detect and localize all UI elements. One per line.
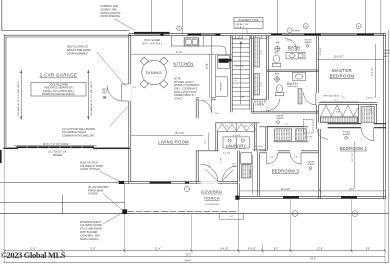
- grade line 1: [0, 182, 118, 184]
- svg-text:CONST.: CONST.: [174, 98, 183, 100]
- door gap bedroom2: [361, 123, 374, 129]
- deck line vertical 4: [365, 0, 367, 34]
- svg-text:OWNER PRIOR TO: OWNER PRIOR TO: [174, 95, 195, 97]
- svg-text:6'-4 1/2": 6'-4 1/2": [248, 249, 257, 251]
- master closet north wall: [318, 102, 377, 104]
- svg-text:2 CAR GARAGE: 2 CAR GARAGE: [40, 73, 78, 78]
- svg-text:9'-2": 9'-2": [274, 249, 279, 251]
- svg-text:INSTALL 1/2" GYPSUM WALL: INSTALL 1/2" GYPSUM WALL: [43, 90, 75, 93]
- dim 9-1 rotated hall: [251, 155, 253, 194]
- counter divider: [203, 36, 205, 46]
- svg-text:W.C.: W.C.: [274, 53, 279, 55]
- svg-text:BEDROOM 3: BEDROOM 3: [272, 168, 300, 173]
- svg-text:BOARD ON GARAGE CEILING: BOARD ON GARAGE CEILING: [42, 93, 75, 96]
- kitchen depth dim vertical: [208, 54, 210, 98]
- svg-text:WINDOW: WINDOW: [384, 53, 390, 55]
- circled tag porch line 1: [292, 211, 298, 217]
- svg-text:FINAL LAYOUT WITH: FINAL LAYOUT WITH: [174, 91, 197, 94]
- svg-text:5'-0": 5'-0": [261, 50, 263, 54]
- master door arc: [317, 128, 328, 139]
- wall poche bar 2: [215, 34, 220, 36]
- bedroom bottom dim line: [240, 190, 386, 192]
- front wall living room: [118, 181, 238, 183]
- garage code box: [31, 83, 86, 97]
- mud door arc: [199, 100, 212, 113]
- svg-text:4'-0": 4'-0": [225, 126, 229, 128]
- svg-text:2'-8": 2'-8": [132, 87, 136, 89]
- svg-text:11'-4": 11'-4": [155, 249, 161, 251]
- garage overhead door: [17, 146, 95, 148]
- leader handrail note: [114, 19, 135, 31]
- garage door swing arc: [107, 86, 122, 102]
- svg-text:ALARM: ALARM: [308, 163, 315, 166]
- hall door arc to bedroom hall: [267, 150, 278, 153]
- svg-text:12'-6 1/2": 12'-6 1/2": [371, 103, 373, 112]
- master closet dim line: [321, 101, 359, 103]
- window sill lines master mid: [322, 33, 358, 35]
- living window dark bar: [150, 182, 172, 184]
- svg-text:13R AT 7 3/8": 13R AT 7 3/8": [236, 23, 250, 26]
- bedroom wing front wall: [238, 195, 386, 197]
- upper bath vanity: [286, 52, 305, 59]
- svg-text:2'-8": 2'-8": [214, 113, 219, 115]
- svg-text:CODE REQUIRED: CODE REQUIRED: [49, 85, 69, 87]
- window sill lines master east: [375, 33, 384, 35]
- linen shelf hatch: [253, 100, 266, 103]
- stairs treads: [232, 39, 250, 109]
- basement stair note box: [234, 18, 263, 29]
- laundry closet rod zigzag: [217, 124, 257, 131]
- porch column left: [122, 209, 127, 214]
- attic access dashed: [304, 120, 314, 134]
- leader built-up stud: [100, 172, 119, 182]
- site line horizontal driveway top: [2, 30, 129, 32]
- svg-text:8'-4 1/2": 8'-4 1/2": [220, 249, 229, 251]
- hall closets top wall: [260, 126, 309, 128]
- svg-text:BATH: BATH: [287, 82, 298, 86]
- circled A window tag 1: [303, 24, 308, 29]
- master closet right shelves: [361, 107, 375, 123]
- svg-text:FIRE RATED SEPARATION: FIRE RATED SEPARATION: [44, 87, 73, 90]
- front door dark bar: [185, 182, 189, 184]
- deck line vertical 2: [182, 0, 184, 34]
- north exterior wall of house: [129, 33, 386, 35]
- svg-text:15'-8": 15'-8": [207, 63, 209, 69]
- svg-text:BEDROOM 2: BEDROOM 2: [340, 146, 368, 151]
- svg-text:NOTE:: NOTE:: [174, 79, 181, 81]
- svg-text:6'-0 1/2": 6'-0 1/2": [233, 135, 241, 137]
- smoke alarm symbol bath: [306, 44, 309, 47]
- svg-text:LAUNDRY: LAUNDRY: [226, 143, 247, 148]
- door gap master bath: [316, 93, 319, 105]
- svg-text:8'-1": 8'-1": [235, 77, 237, 81]
- dining table: [142, 60, 167, 85]
- svg-text:ALARM: ALARM: [305, 41, 312, 44]
- svg-text:33'-0": 33'-0": [310, 259, 316, 261]
- svg-text:DOOR ASSEMBLY!: DOOR ASSEMBLY!: [67, 53, 88, 56]
- hall window sill box: [251, 36, 268, 39]
- svg-text:COVERED: COVERED: [201, 189, 222, 194]
- porch column right: [235, 196, 239, 200]
- garage-house door leaf: [122, 84, 129, 101]
- bath west wall: [266, 36, 268, 112]
- bath door arc lower: [269, 99, 280, 110]
- master closet shelves: [321, 117, 358, 123]
- circled tag porch line 2: [352, 211, 358, 217]
- circled B slider tag: [177, 26, 182, 31]
- master closet south wall / bedroom2 north wall: [318, 123, 385, 125]
- svg-text:5000# LOAD EA.): 5000# LOAD EA.): [80, 238, 99, 241]
- svg-text:12'-6": 12'-6": [317, 249, 323, 251]
- dimension extension verticals bottom: [4, 150, 385, 263]
- svg-text:BEDROOM: BEDROOM: [330, 73, 355, 78]
- kitchen window dark bar: [188, 34, 202, 36]
- counter west leg: [215, 56, 217, 77]
- svg-text:EGRESS: EGRESS: [384, 50, 390, 52]
- garage north wall: [4, 34, 131, 36]
- stair west wall: [230, 36, 232, 112]
- garage south wall: [4, 147, 17, 149]
- hall closets bottom wall: [274, 141, 309, 143]
- svg-text:4'-1 1/2": 4'-1 1/2": [222, 152, 230, 154]
- hall closet small: [241, 153, 252, 164]
- svg-text:2'-10": 2'-10": [221, 157, 223, 163]
- circled A window tag 2: [356, 24, 361, 29]
- lower bath toilet: [276, 85, 282, 93]
- svg-text:2'-6 3/4": 2'-6 3/4": [305, 136, 313, 138]
- kitchen counter: [172, 46, 227, 56]
- svg-text:11'-0": 11'-0": [90, 249, 96, 251]
- svg-text:7'-2": 7'-2": [284, 124, 289, 126]
- wall poche bar 1: [160, 34, 163, 36]
- bedroom3 north wall: [260, 150, 319, 152]
- porch beam dashed: [128, 211, 238, 213]
- svg-text:16'-0" x 7'-0" O.H. DOOR: 16'-0" x 7'-0" O.H. DOOR: [43, 144, 69, 146]
- master window 1 dark bar: [304, 34, 321, 36]
- circled porch beam tag: [184, 186, 189, 191]
- lower bath fan: [275, 77, 280, 82]
- door gap master: [317, 123, 328, 129]
- roof overhang right: [387, 30, 389, 262]
- laundry closet north wall: [216, 122, 260, 124]
- bedroom2/3 divider wall: [317, 128, 319, 198]
- svg-text:19'-2 1/2": 19'-2 1/2": [175, 133, 185, 135]
- svg-text:B.P.: B.P.: [336, 112, 340, 114]
- closet divider: [358, 104, 360, 123]
- svg-text:FAN: FAN: [275, 73, 279, 76]
- stair east rail: [249, 36, 251, 109]
- svg-text:BASEMENT STAIR: BASEMENT STAIR: [239, 19, 259, 22]
- leader gyp note: [110, 107, 128, 126]
- vinyl slider dark bar: [134, 32, 170, 34]
- bath shelf strip: [298, 89, 302, 105]
- svg-text:(CONCRETE): (CONCRETE): [205, 204, 219, 206]
- hall east wall / bath west wall: [251, 36, 253, 112]
- mud room walls: [196, 97, 215, 99]
- porch slab edge full width: [0, 213, 388, 215]
- svg-text:2'-8": 2'-8": [294, 156, 298, 158]
- master bath door arc: [304, 93, 316, 105]
- bottom dim line 2: [4, 255, 385, 257]
- dining chairs: [140, 57, 168, 88]
- svg-text:LINEN: LINEN: [255, 103, 264, 107]
- scan artifact left edge: [0, 150, 2, 163]
- circled temp tag: [287, 28, 292, 33]
- master closet east wall: [376, 104, 378, 123]
- leader self-closing note: [97, 52, 126, 86]
- pantry shelf strip upper: [254, 38, 260, 68]
- site line left vertical: [1, 0, 3, 31]
- svg-text:DINING: DINING: [146, 70, 162, 75]
- linen closet walls: [252, 98, 267, 100]
- svg-text:AT EDGE: AT EDGE: [88, 193, 98, 196]
- deck line vertical 5: [380, 0, 382, 34]
- kitchen/mud wall: [211, 36, 213, 100]
- leader basement stair: [246, 29, 248, 34]
- bedroom2 dim vertical: [354, 142, 356, 188]
- laundry dim line vertical: [208, 133, 210, 150]
- porch column extension vertical: [124, 184, 126, 210]
- bottom dim line 3: [4, 261, 388, 263]
- svg-text:KITCHEN LAYOUT: KITCHEN LAYOUT: [174, 81, 194, 84]
- upper bath toilet: [273, 55, 280, 63]
- dim ticks line1: [3, 249, 386, 252]
- smoke alarm symbol hall: [277, 121, 280, 124]
- stair arrow: [240, 42, 242, 104]
- svg-text:(8'-0" x 6'-8" R.O.): (8'-0" x 6'-8" R.O.): [142, 42, 161, 45]
- window sill lines kitchen east: [201, 33, 215, 35]
- wall garage/dining shared: [128, 34, 130, 184]
- master window 2 dark bar: [357, 34, 374, 36]
- lower bath vanity: [293, 72, 306, 80]
- pantry cabinet: [216, 77, 228, 97]
- svg-text:ONLY - COORDINATE: ONLY - COORDINATE: [174, 88, 198, 91]
- attic access box: [342, 96, 346, 100]
- corner post dark: [119, 181, 124, 184]
- door gap front door: [201, 181, 218, 184]
- svg-text:12'-6 1/2": 12'-6 1/2": [281, 189, 291, 191]
- heat detector symbol: [103, 96, 106, 99]
- master dim line: [318, 59, 384, 61]
- svg-text:2'-6": 2'-6": [287, 40, 291, 42]
- svg-text:12'-4 1/2": 12'-4 1/2": [372, 67, 374, 76]
- svg-text:HEADER: HEADER: [53, 154, 63, 157]
- svg-text:2X4 WALL AT 16" O.C. MIN. SEC': 2X4 WALL AT 16" O.C. MIN. SEC'D: [17, 81, 20, 116]
- svg-text:44'-0": 44'-0": [185, 260, 191, 262]
- stair extension line vertical: [276, 0, 278, 34]
- svg-text:DET.: DET.: [103, 93, 108, 95]
- laundry washer: [223, 137, 236, 148]
- stair landing dark cap: [222, 59, 231, 62]
- smoke alarm symbol bedroom3: [309, 167, 312, 170]
- svg-text:5'-0": 5'-0": [261, 82, 263, 86]
- door gap garage-dining: [129, 84, 132, 101]
- east exterior wall: [383, 34, 385, 199]
- svg-text:DN: DN: [241, 96, 245, 98]
- door gap mud: [199, 98, 211, 101]
- svg-text:BATH: BATH: [288, 45, 300, 50]
- interior dim line living: [132, 134, 204, 136]
- svg-text:ALARM: ALARM: [277, 117, 284, 120]
- baths divider wall: [267, 69, 319, 71]
- svg-text:FRIDGE: FRIDGE: [221, 82, 223, 91]
- svg-text:SHOWN IS SCHEMATIC: SHOWN IS SCHEMATIC: [174, 84, 200, 87]
- window sill lines bath east: [283, 33, 305, 35]
- svg-text:22'-0": 22'-0": [186, 254, 192, 256]
- hall wall above bedroom3: [265, 127, 267, 151]
- laundry walls: [215, 123, 217, 151]
- svg-text:HDR.: HDR.: [384, 56, 389, 58]
- svg-text:FAN: FAN: [275, 41, 279, 44]
- bath window dark bar: [271, 34, 282, 35]
- grade line 2: [0, 202, 125, 204]
- kitchen sink: [184, 38, 199, 46]
- svg-text:13'-6 1/2": 13'-6 1/2": [334, 56, 344, 58]
- svg-text:LIVING ROOM: LIVING ROOM: [158, 139, 189, 144]
- svg-text:PORCH BEAM: PORCH BEAM: [88, 189, 104, 192]
- svg-text:7'-2": 7'-2": [205, 140, 207, 145]
- pantry shelf strip lower: [254, 74, 260, 96]
- svg-text:KITCHEN: KITCHEN: [173, 61, 193, 66]
- garage west wall: [3, 35, 5, 148]
- leader porch beam: [103, 194, 122, 210]
- bedroom3 closet shelves: [296, 129, 307, 141]
- svg-text:12'-1": 12'-1": [349, 189, 355, 191]
- svg-text:9'-6": 9'-6": [366, 249, 371, 251]
- range: [218, 56, 230, 69]
- porch steps: [220, 214, 244, 220]
- svg-text:2'-9 3/4": 2'-9 3/4": [255, 146, 263, 148]
- deck line vertical 3: [315, 0, 317, 34]
- svg-text:ATTIC ACCESS: ATTIC ACCESS: [323, 94, 339, 97]
- interior dim line kitchen: [132, 53, 233, 55]
- svg-text:13'-2 1/2": 13'-2 1/2": [235, 66, 244, 68]
- svg-text:HEAT: HEAT: [102, 89, 109, 92]
- svg-text:4'-6": 4'-6": [209, 163, 211, 168]
- bath door arc upper: [285, 39, 297, 51]
- svg-text:4'-0": 4'-0": [230, 216, 234, 218]
- bedroom3 west wall: [257, 151, 259, 197]
- svg-text:12'-7 1/2": 12'-7 1/2": [352, 152, 354, 161]
- svg-text:PORCH: PORCH: [204, 196, 219, 201]
- deck line vertical 1: [151, 0, 153, 34]
- living/hall wall: [195, 151, 197, 184]
- svg-text:MASTER: MASTER: [332, 68, 352, 73]
- svg-text:2'-8": 2'-8": [270, 156, 274, 158]
- svg-text:B.P.: B.P.: [232, 166, 236, 168]
- hall closet shelves: [275, 129, 292, 141]
- hall door arc second: [223, 166, 238, 181]
- porch east wall / wing west wall: [237, 184, 239, 199]
- svg-text:9'-7": 9'-7": [334, 100, 339, 102]
- svg-text:2X4 WALL AT 16" O.C. MIN. SEC': 2X4 WALL AT 16" O.C. MIN. SEC'D: [90, 81, 93, 116]
- svg-text:TEMP.: TEMP.: [293, 30, 300, 32]
- upper bath fixtures: [275, 46, 280, 51]
- laundry dryer: [236, 137, 249, 148]
- bedroom2 door arc: [361, 128, 373, 140]
- svg-text:12T AT 9": 12T AT 9": [236, 26, 246, 29]
- bedroom3 window dark bar: [283, 197, 299, 199]
- hall dim line 7-2: [268, 125, 304, 127]
- master closet rod zigzag: [321, 105, 358, 116]
- leader exterior porch: [103, 213, 123, 225]
- bedroom3 door arc: [290, 150, 301, 153]
- svg-text:COMMON WITH DWELLING: COMMON WITH DWELLING: [62, 135, 95, 138]
- smoke alarm symbol bedroom2: [345, 136, 348, 139]
- svg-text:B.P.: B.P.: [244, 126, 248, 128]
- master west wall: [315, 36, 317, 129]
- svg-text:9'-1 1/2": 9'-1 1/2": [249, 169, 251, 177]
- svg-text:©2023 Global MLS: ©2023 Global MLS: [1, 251, 66, 260]
- front door arc: [201, 164, 219, 182]
- svg-text:DOOR OPENING): DOOR OPENING): [101, 15, 121, 18]
- linen shelves south hall: [242, 165, 252, 179]
- bottom dim line 1: [4, 250, 385, 252]
- svg-text:2'-8 1/2": 2'-8 1/2": [366, 98, 374, 100]
- walk divider vertical: [62, 195, 64, 214]
- svg-text:ALARM: ALARM: [343, 133, 350, 136]
- svg-text:(2) 2x10 DROPPED: (2) 2x10 DROPPED: [88, 187, 109, 189]
- svg-text:LOADS (TYPICAL): LOADS (TYPICAL): [80, 168, 101, 171]
- stair window sill box: [232, 36, 243, 39]
- bedroom2 window dark bar: [341, 197, 357, 199]
- garage dim arrows: [20, 70, 22, 120]
- svg-text:17'-0": 17'-0": [176, 52, 182, 54]
- svg-text:8'-9 1/2": 8'-9 1/2": [320, 47, 322, 55]
- svg-text:(2) 1.75x9.25" LVL: (2) 1.75x9.25" LVL: [48, 152, 68, 154]
